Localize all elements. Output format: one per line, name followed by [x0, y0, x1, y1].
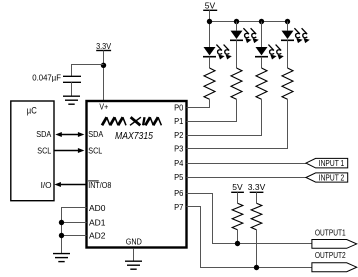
svg-text:V+: V+ — [99, 101, 108, 111]
wire SDA bidirectional arrow — [55, 132, 84, 137]
wire R2 to P1 — [187, 99, 237, 121]
svg-text:P6: P6 — [174, 188, 184, 198]
LED D4 — [281, 28, 310, 43]
ground (AD bus) — [53, 254, 70, 262]
wire R3 to P2 — [187, 99, 262, 135]
svg-text:INPUT 2: INPUT 2 — [319, 173, 345, 183]
pin label INT/O8 with overline on INT — [88, 180, 111, 190]
resistor R1 — [204, 68, 215, 99]
capacitor C1 — [32, 72, 81, 82]
wire capacitor to ground — [71, 82, 73, 96]
resistor R5 — [232, 203, 243, 230]
resistor R3 — [256, 68, 267, 99]
node AD1 junction — [59, 220, 64, 225]
power 5V (top) — [203, 0, 217, 10]
wire R4 to P3 — [187, 99, 288, 148]
wire P7 to OUTPUT2 — [187, 207, 312, 268]
svg-text:SCL: SCL — [37, 146, 51, 156]
wire rail to LED D2 — [236, 22, 238, 31]
power 3.3V (pull-up) — [248, 182, 266, 192]
wire D4 to R4 — [287, 40, 289, 68]
node rail at D4 — [285, 19, 290, 24]
wire D2 to R2 — [236, 40, 238, 68]
svg-text:I/O: I/O — [41, 180, 52, 190]
svg-text:INPUT 1: INPUT 1 — [319, 158, 345, 168]
svg-text:P3: P3 — [174, 144, 184, 154]
resistor R6 — [251, 203, 262, 230]
node rail at D3 — [259, 19, 264, 24]
resistor R2 — [231, 68, 242, 99]
wire AD1 to bus — [62, 222, 87, 224]
LED D3 — [255, 45, 284, 60]
svg-text:µC: µC — [27, 105, 37, 115]
svg-text:AD0: AD0 — [89, 203, 106, 213]
node rail at D1 — [207, 19, 212, 24]
svg-text:P7: P7 — [174, 202, 184, 212]
wire 5V drop to LED D1 — [209, 10, 211, 47]
svg-text:OUTPUT2: OUTPUT2 — [315, 250, 346, 260]
microcontroller µC box — [11, 101, 54, 201]
wire P4 to INPUT1 — [187, 163, 307, 165]
svg-text:0.047µF: 0.047µF — [32, 72, 61, 82]
svg-text:5V: 5V — [232, 182, 243, 192]
svg-text:3.3V: 3.3V — [96, 41, 111, 51]
svg-text:3.3V: 3.3V — [248, 182, 266, 192]
power 3.3V — [96, 41, 111, 51]
ground (capacitor) — [63, 96, 80, 104]
power 5V (pull-up) — [231, 182, 244, 192]
LED D2 — [230, 28, 259, 43]
connector flag INPUT1 — [306, 158, 348, 168]
wire AD0 to bus — [62, 208, 87, 254]
IC U1 MAX7315 body — [87, 101, 187, 248]
wire junction to capacitor — [72, 65, 104, 77]
svg-text:P1: P1 — [174, 116, 184, 126]
svg-text:OUTPUT1: OUTPUT1 — [315, 228, 346, 238]
resistor R4 — [282, 68, 293, 99]
connector flag INPUT2 — [306, 173, 348, 183]
wire 3.3V to V+ — [103, 51, 105, 102]
wire R5 to OUTPUT1 line — [237, 230, 239, 244]
wire AD2 to bus — [62, 235, 87, 237]
svg-text:P2: P2 — [174, 130, 184, 140]
svg-text:SDA: SDA — [36, 129, 51, 139]
node R5/OUTPUT1 junction — [235, 241, 240, 246]
LED D1 — [203, 45, 232, 60]
wire R6 to OUTPUT2 line — [256, 230, 258, 268]
ground (GND pin) — [125, 261, 142, 269]
node 3.3V/C1 junction — [101, 63, 106, 68]
svg-text:AD2: AD2 — [89, 231, 106, 241]
connector flag OUTPUT2 — [312, 263, 357, 272]
svg-text:5V: 5V — [205, 0, 216, 10]
node R6/OUTPUT2 junction — [254, 265, 259, 270]
svg-text:P4: P4 — [174, 158, 184, 168]
wire D3 to R3 — [261, 57, 263, 68]
wire R1 to P0 — [187, 99, 210, 107]
node AD2 junction — [59, 233, 64, 238]
wire SCL arrow — [54, 148, 84, 153]
wire rail to LED D4 — [287, 22, 289, 31]
svg-text:MAX7315: MAX7315 — [115, 131, 153, 142]
svg-text:SDA: SDA — [88, 129, 103, 139]
node rail at D2 — [234, 19, 239, 24]
wire 5V rail — [210, 21, 288, 23]
wire 5V bar to R5 — [237, 192, 239, 203]
svg-text:P5: P5 — [174, 172, 184, 182]
svg-text:AD1: AD1 — [89, 218, 106, 228]
MAXIM logo — [102, 117, 161, 125]
wire P5 to INPUT2 — [187, 177, 307, 179]
svg-text:P0: P0 — [174, 102, 184, 112]
wire GND pin — [133, 249, 135, 261]
wire 3.3V bar to R6 — [256, 192, 258, 203]
connector flag OUTPUT1 — [312, 240, 357, 249]
svg-text:GND: GND — [126, 236, 142, 246]
wire INT/O8 to I/O arrow — [54, 182, 86, 187]
wire rail to LED D3 — [261, 22, 263, 48]
svg-text:SCL: SCL — [88, 146, 102, 156]
wire D1 to R1 — [209, 57, 211, 68]
wire P6 to OUTPUT1 — [187, 194, 312, 244]
